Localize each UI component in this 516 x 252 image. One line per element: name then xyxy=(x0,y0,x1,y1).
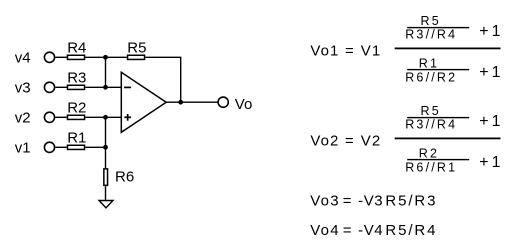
svg-text:R6//R2: R6//R2 xyxy=(405,71,457,85)
wire R4 to R5 corner xyxy=(85,56,127,58)
svg-text:+1: +1 xyxy=(479,64,503,81)
eq1 numerator small bar xyxy=(407,27,469,28)
op-amp minus sign xyxy=(124,86,131,88)
wire v3 row xyxy=(56,86,67,88)
op-amp U1 xyxy=(121,72,166,132)
svg-text:v1: v1 xyxy=(15,139,31,156)
svg-text:v2: v2 xyxy=(15,109,31,126)
svg-text:R2: R2 xyxy=(419,147,439,161)
svg-text:R5: R5 xyxy=(421,104,441,118)
wire op-amp output xyxy=(166,101,217,103)
eq1 denominator small bar xyxy=(407,69,469,70)
svg-text:+1: +1 xyxy=(479,113,503,130)
svg-text:Vo: Vo xyxy=(235,96,253,113)
svg-text:Vo1=V1: Vo1=V1 xyxy=(310,42,381,59)
resistor R6 xyxy=(104,169,108,186)
eq1 main fraction bar xyxy=(395,48,501,50)
svg-text:+1: +1 xyxy=(479,23,503,40)
wire R6 bottom to ground xyxy=(105,186,107,200)
resistor R2 xyxy=(67,115,84,119)
terminal v4 xyxy=(44,52,54,62)
resistor R4 xyxy=(67,55,84,59)
svg-text:v3: v3 xyxy=(15,79,31,96)
wire vertical non-inverting bus R2-R1-R6 xyxy=(105,117,107,168)
wire R3 to op-amp minus input xyxy=(85,86,121,88)
resistor R5 xyxy=(128,55,145,59)
svg-text:R5: R5 xyxy=(127,39,146,56)
ground xyxy=(99,201,113,208)
svg-text:R6//R1: R6//R1 xyxy=(405,161,457,175)
svg-text:R5: R5 xyxy=(421,14,441,28)
junction output node xyxy=(178,100,183,105)
eq2 numerator small bar xyxy=(407,117,469,118)
svg-text:v4: v4 xyxy=(15,49,31,66)
wire R2 to op-amp plus input xyxy=(85,116,121,118)
svg-text:+1: +1 xyxy=(479,154,503,171)
wire vertical inverting bus R4-R3 xyxy=(105,57,107,87)
terminal Vo xyxy=(218,97,228,107)
svg-text:Vo2=V2: Vo2=V2 xyxy=(310,132,381,149)
op-amp plus sign xyxy=(124,116,131,118)
eq2 main fraction bar xyxy=(395,138,501,140)
svg-text:R6: R6 xyxy=(115,169,134,186)
junction R1 node xyxy=(103,145,108,150)
svg-text:Vo3=-V3R5/R3: Vo3=-V3R5/R3 xyxy=(310,193,437,210)
svg-text:R1: R1 xyxy=(419,57,439,71)
wire v1 row xyxy=(56,146,67,148)
wire v4 row xyxy=(56,56,67,58)
junction R2 node xyxy=(103,115,108,120)
svg-text:R3//R4: R3//R4 xyxy=(405,118,457,132)
wire R5 right to feedback corner xyxy=(145,57,180,102)
svg-text:R3//R4: R3//R4 xyxy=(405,28,457,42)
svg-text:R3: R3 xyxy=(67,69,86,86)
terminal v2 xyxy=(44,112,54,122)
svg-text:R4: R4 xyxy=(67,39,86,56)
junction R4 node xyxy=(103,55,108,60)
resistor R3 xyxy=(67,85,84,89)
svg-text:R1: R1 xyxy=(67,129,86,146)
terminal v1 xyxy=(44,142,54,152)
eq2 denominator small bar xyxy=(407,159,469,160)
svg-text:R2: R2 xyxy=(67,99,86,116)
resistor R1 xyxy=(67,145,84,149)
svg-text:Vo4=-V4R5/R4: Vo4=-V4R5/R4 xyxy=(310,222,437,239)
terminal v3 xyxy=(44,82,54,92)
junction R3 node xyxy=(103,85,108,90)
wire R1 to junction xyxy=(85,146,105,148)
wire v2 row xyxy=(56,116,67,118)
